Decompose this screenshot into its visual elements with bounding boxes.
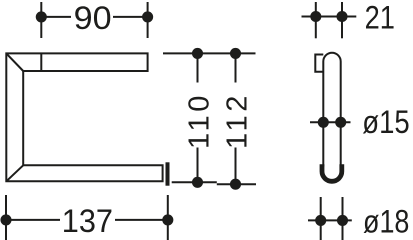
svg-text:ø18: ø18 bbox=[363, 203, 409, 239]
dim 137: left extension line bbox=[5, 195, 7, 240]
dim 137: right extension line bbox=[167, 195, 169, 240]
svg-text:21: 21 bbox=[365, 0, 395, 36]
side view: hook tab at top bbox=[315, 55, 323, 72]
dim o18: left extension line bbox=[320, 197, 322, 240]
front view: bend divider line on top arm bbox=[40, 53, 42, 71]
svg-text:112: 112 bbox=[221, 92, 253, 149]
dim 112: bottom reference line bbox=[217, 183, 256, 185]
dim 110/112: top reference line bbox=[163, 52, 256, 54]
dim o18: dimension line bbox=[308, 219, 352, 221]
dim 137: dimension line segments bbox=[6, 219, 60, 221]
dim o15: dimension line bbox=[310, 121, 351, 123]
side view: thick U end (o18 ferrule) bbox=[322, 164, 342, 181]
dim 21: terminator dots bbox=[310, 11, 321, 22]
dim 137: terminator dots bbox=[0, 214, 11, 225]
dim 112: vertical dimension line segments bbox=[235, 53, 237, 82]
dim o15: terminator dots bbox=[318, 117, 329, 128]
dim 110: bottom terminator dot bbox=[192, 177, 203, 188]
dim 21: dimension line bbox=[302, 16, 357, 18]
side view: capsule profile of bar bbox=[323, 53, 340, 167]
svg-text:ø15: ø15 bbox=[362, 104, 409, 140]
front view: top-left corner mitre line bbox=[6, 53, 23, 71]
svg-text:110: 110 bbox=[183, 92, 215, 149]
dim o18: right extension line bbox=[342, 197, 344, 240]
dim o18: terminator dots bbox=[315, 215, 326, 226]
dim 90: left extension line bbox=[40, 2, 42, 38]
dim 110: bottom reference line bbox=[172, 181, 217, 183]
dim 110/112: top terminator dots bbox=[192, 48, 203, 59]
dim 90: right extension line bbox=[147, 2, 149, 38]
dim 21: left extension line bbox=[315, 2, 317, 38]
front view: C-shaped holder outline bbox=[6, 53, 162, 181]
dim 90: terminator dots bbox=[36, 11, 47, 22]
dim 110: vertical dimension line segments bbox=[197, 53, 199, 82]
svg-text:90: 90 bbox=[74, 0, 112, 36]
svg-text:137: 137 bbox=[62, 203, 113, 239]
front view: bottom-left corner mitre line bbox=[6, 165, 23, 181]
front view: wall-mount end plate bbox=[166, 162, 170, 185]
dim 21: right extension line bbox=[341, 2, 343, 38]
dim 112: bottom terminator dot bbox=[230, 179, 241, 190]
dim 90: dimension line segments bbox=[41, 16, 71, 18]
